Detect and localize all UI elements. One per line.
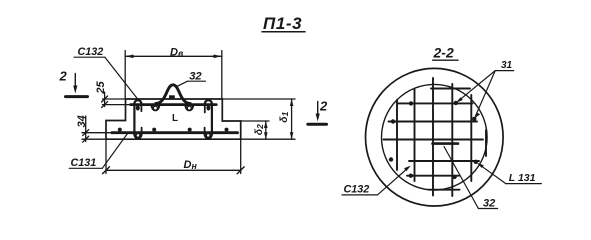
mesh grid horizontal bars: [384, 89, 484, 190]
svg-text:L: L: [172, 113, 178, 124]
wire: right step extension to d2: [241, 120, 269, 122]
svg-text:2-2: 2-2: [433, 45, 454, 61]
mesh C131 bottom bar: [112, 131, 238, 134]
stirrup right top hook: [205, 100, 212, 105]
svg-text:32: 32: [189, 70, 202, 82]
inner circle: [382, 84, 488, 190]
mesh grid vertical bars: [397, 78, 486, 196]
dimension 25: [104, 92, 106, 107]
wire: top surface extension right to d1: [222, 98, 295, 100]
svg-text:C131: C131: [71, 157, 97, 169]
dimension d1: [291, 99, 293, 139]
svg-text:δ2: δ2: [253, 124, 265, 135]
svg-text:31: 31: [501, 60, 513, 71]
loop bar section dot: [169, 95, 175, 98]
svg-text:Dн: Dн: [184, 159, 198, 171]
lifting loop 32 (wave): [156, 85, 190, 104]
stirrup left leg: [133, 105, 135, 134]
svg-text:L 131: L 131: [509, 172, 536, 184]
dimension d2: [265, 121, 267, 139]
stirrup left top hook: [134, 100, 141, 105]
dimension 34: [85, 116, 87, 142]
loop 32 plan (center bar): [433, 142, 459, 145]
loop left foot hook: [152, 105, 160, 111]
wire: mesh C132 extension left: [103, 104, 131, 106]
rebar dots on mesh C131: [118, 128, 229, 132]
svg-text:25: 25: [95, 80, 107, 94]
loop right foot hook: [185, 105, 193, 111]
svg-text:Dв: Dв: [170, 46, 184, 58]
dimension Dn: [105, 139, 107, 173]
slab outline (section 1): [106, 99, 241, 139]
section marker 2 left: [66, 95, 88, 98]
section marker 2 right: [308, 123, 327, 126]
wire: bottom extension right: [241, 138, 295, 140]
svg-text:П1-3: П1-3: [263, 14, 302, 33]
stirrup left bottom hook: [134, 134, 141, 138]
stirrup right leg: [211, 105, 213, 134]
svg-text:δ1: δ1: [278, 111, 290, 122]
svg-text:34: 34: [76, 115, 88, 127]
outer circle: [366, 68, 504, 206]
svg-text:2: 2: [319, 99, 328, 114]
dimension Dv: [124, 51, 126, 99]
wire: top surface extension left (25 dim): [103, 98, 126, 100]
rebar dots ring: [389, 101, 478, 179]
mesh C132 top bar: [131, 103, 217, 106]
stirrup right bottom hook: [205, 134, 212, 138]
svg-text:2: 2: [59, 69, 68, 84]
wire: bottom extension left (34 dim): [82, 138, 106, 140]
svg-text:32: 32: [483, 198, 495, 210]
wire: mesh C131 extension left: [82, 132, 112, 134]
svg-text:C132: C132: [344, 184, 370, 196]
svg-text:C132: C132: [78, 46, 104, 58]
